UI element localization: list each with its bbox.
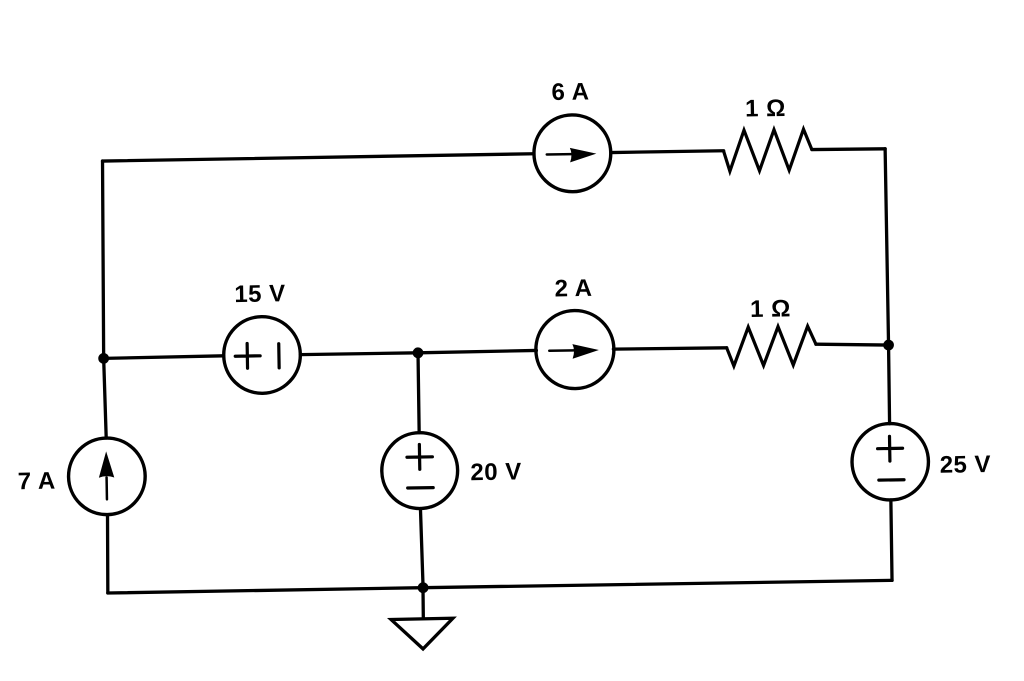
current source I3 arrow shaft — [105, 477, 108, 499]
node left middle junction dot — [98, 353, 109, 364]
wire right vertical lower — [891, 500, 893, 580]
current source I2 2A circle — [535, 310, 614, 389]
voltage source V2 plus sign — [407, 444, 433, 469]
wire right vertical upper — [885, 149, 888, 345]
svg-text:15 V: 15 V — [234, 280, 286, 308]
wire right vertical middle — [888, 345, 890, 424]
ground symbol triangle — [391, 618, 453, 649]
voltage source V3 minus sign — [879, 478, 904, 482]
voltage source V2 minus sign — [408, 486, 433, 490]
wire top rail middle segment — [611, 151, 724, 153]
current source I2 arrowhead — [572, 344, 599, 359]
wire middle rail segment from 15V to center node — [300, 353, 418, 355]
current source I1 arrow shaft — [547, 153, 572, 156]
wire ground stub — [421, 588, 425, 619]
wire left vertical middle — [104, 358, 107, 438]
resistor R1 1ohm zigzag — [723, 129, 812, 171]
voltage source V1 15V circle — [223, 316, 301, 394]
wire bottom rail left segment — [108, 588, 423, 593]
current source I1 arrowhead — [570, 147, 597, 162]
voltage source V3 25V circle — [851, 423, 929, 501]
wire middle rail segment from R2 to right node — [816, 343, 889, 346]
svg-text:20 V: 20 V — [470, 458, 522, 486]
wire middle rail segment from left node to 15V source — [104, 356, 224, 359]
node center middle junction dot — [413, 347, 424, 358]
current source I3 7A circle — [68, 437, 146, 515]
wire top rail right segment — [812, 148, 885, 150]
svg-text:7 A: 7 A — [18, 468, 56, 496]
voltage source V3 plus sign — [877, 436, 902, 461]
svg-text:1 Ω: 1 Ω — [745, 95, 786, 123]
voltage source V1 bar terminal — [277, 344, 281, 368]
wire middle rail segment from center node to 2A source — [418, 350, 536, 352]
resistor R2 1ohm zigzag — [726, 326, 816, 366]
wire top rail left segment — [103, 154, 534, 161]
wire middle branch upper (center node to 20V source) — [418, 353, 420, 433]
svg-text:2 A: 2 A — [554, 275, 592, 303]
svg-text:25 V: 25 V — [939, 451, 991, 479]
voltage source V2 20V circle — [381, 432, 458, 509]
svg-text:6 A: 6 A — [551, 78, 589, 106]
wire bottom rail right segment — [423, 580, 892, 589]
svg-text:1 Ω: 1 Ω — [750, 295, 791, 323]
current source I2 arrow shaft — [549, 349, 574, 352]
current source I1 6A circle — [533, 114, 611, 192]
current source I3 arrowhead — [98, 451, 114, 478]
voltage source V1 plus sign — [235, 343, 260, 368]
node bottom junction dot — [418, 582, 429, 593]
wire left vertical upper — [100, 161, 106, 358]
wire middle rail segment from 2A to resistor R2 — [613, 347, 726, 350]
node right middle junction dot — [883, 340, 894, 351]
wire middle branch lower (20V source to bottom rail) — [420, 508, 423, 587]
wire left vertical lower — [107, 515, 109, 593]
